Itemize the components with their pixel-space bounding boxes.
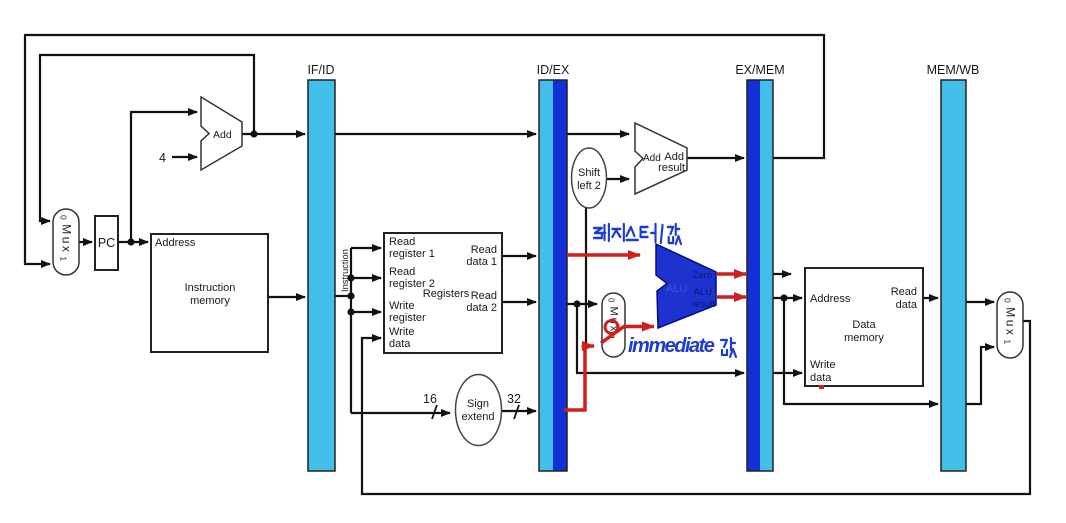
wire write-back: WB mux output around bottom to Write data [362, 321, 1030, 494]
wire Add2 result to EX/MEM [687, 157, 744, 159]
svg-text:left 2: left 2 [577, 180, 601, 192]
data memory [805, 268, 923, 386]
svg-text:ALU: ALU [666, 283, 687, 295]
svg-text:register: register [389, 312, 426, 324]
svg-text:Write: Write [389, 326, 414, 338]
svg-text:data 1: data 1 [466, 256, 497, 268]
registers unit [384, 233, 502, 353]
wire immediate to Sign extend [351, 412, 450, 414]
svg-text:memory: memory [844, 332, 884, 344]
wire mux output to PC [79, 241, 92, 243]
wire Read data 1 to ID/EX [502, 255, 536, 257]
wire to Write register [351, 311, 381, 313]
PC register [95, 216, 118, 270]
svg-text:data: data [810, 372, 832, 384]
wire constant 4 into Add [172, 156, 197, 158]
pipeline register ID/EX [537, 63, 570, 471]
wire PC+4 loop: Add output up over to PC mux input 0 [40, 55, 254, 221]
svg-text:Zero: Zero [692, 270, 712, 281]
wire Instruction memory output to IF/ID [268, 296, 305, 298]
pipeline register IF/ID [307, 63, 335, 471]
svg-text:result: result [658, 162, 685, 174]
svg-text:Registers: Registers [423, 288, 470, 300]
wire Sign extend output to ID/EX [502, 410, 536, 412]
mux M2 (ALUSrc) [602, 293, 625, 357]
red wire register 1 value into ALU [567, 253, 640, 257]
svg-text:32: 32 [507, 392, 521, 406]
red wire mux to ALU lower input [601, 327, 654, 344]
svg-text:extend: extend [461, 411, 494, 423]
red mark under data memory [819, 385, 824, 389]
svg-text:Read: Read [471, 290, 497, 302]
node instruction bus junction 1 [347, 274, 354, 281]
mux M3 (write-back) [997, 292, 1023, 358]
node Add output junction [250, 130, 257, 137]
mux M1 (PC source) [53, 209, 79, 275]
svg-text:Add: Add [213, 129, 232, 141]
svg-text:register 1: register 1 [389, 248, 435, 260]
wire PC value up to Add top input [131, 112, 197, 242]
svg-text:immediate: immediate [628, 335, 715, 357]
wire Zero flag out of EX/MEM [773, 273, 791, 275]
svg-text:Write: Write [810, 359, 835, 371]
svg-text:ALU: ALU [694, 287, 713, 298]
wire PC+4 ID/EX to Add2 [567, 133, 629, 135]
ALU [656, 244, 716, 328]
svg-text:Address: Address [810, 293, 851, 305]
node instruction bus junction 2 [347, 292, 354, 299]
red circle annotation around mux input 1 [605, 321, 618, 334]
svg-text:IF/ID: IF/ID [307, 63, 334, 77]
adder Add2 (branch target) [635, 123, 687, 194]
red wire ALU Zero output to EX/MEM [717, 272, 746, 276]
wire immediate up to Shift left 2 [585, 208, 587, 344]
wire to Read register 2 [351, 277, 381, 279]
wire instruction from IF/ID [335, 295, 351, 297]
sign extend unit [456, 375, 502, 446]
bus slash 32 [514, 405, 519, 419]
wire PC+4 IF/ID to ID/EX [335, 133, 536, 135]
svg-text:Instruction: Instruction [185, 282, 236, 294]
instruction memory [151, 234, 268, 352]
pipeline register EX/MEM [735, 63, 784, 471]
svg-text:Write: Write [389, 300, 414, 312]
node instruction bus junction 3 [347, 308, 354, 315]
wire write data to Data memory [773, 372, 802, 374]
wire PC output to Instruction memory Address [118, 241, 148, 243]
svg-text:ID/EX: ID/EX [537, 63, 570, 77]
wire Shift left 2 output to Add2 [606, 178, 629, 180]
red wire ALU result to EX/MEM [717, 295, 746, 299]
svg-text:Sign: Sign [467, 398, 489, 410]
wire Read data 2 to ID/EX [502, 301, 536, 303]
node ALU result junction [780, 294, 787, 301]
bus slash 16 [432, 405, 437, 419]
svg-text:16: 16 [423, 392, 437, 406]
wire Read data 2 down to EX/MEM [577, 304, 744, 373]
svg-text:data: data [896, 299, 918, 311]
wire to Read register 1 [351, 247, 381, 249]
red node on immediate path [582, 343, 589, 350]
wire instruction vertical bus [350, 248, 352, 413]
svg-text:data 2: data 2 [466, 302, 497, 314]
svg-text:result: result [692, 299, 716, 310]
node PC output junction [127, 238, 134, 245]
svg-text:Shift: Shift [578, 167, 600, 179]
wire ALU result to Data memory Address [773, 297, 802, 299]
annotation register 1 value (Korean handwriting) [594, 224, 681, 244]
svg-text:4: 4 [159, 151, 166, 165]
wire branch-target feedback: EX/MEM right to top to PC mux input 1 [25, 35, 824, 264]
svg-text:Address: Address [155, 237, 196, 249]
svg-text:data: data [389, 338, 411, 350]
wire Add output to IF/ID [242, 133, 305, 135]
svg-text:Read: Read [389, 266, 415, 278]
wire Read data to MEM/WB [923, 297, 938, 299]
annotation immediate value (handwriting) [628, 335, 736, 357]
svg-text:Read: Read [471, 244, 497, 256]
svg-text:PC: PC [98, 236, 115, 250]
red wire immediate path into ALUSrc mux [564, 346, 594, 410]
node read data 2 junction [573, 300, 580, 307]
pipeline register MEM/WB [927, 63, 980, 471]
svg-text:memory: memory [190, 295, 230, 307]
svg-text:EX/MEM: EX/MEM [735, 63, 784, 77]
wire MEM/WB ALU result to WB mux input 1 [966, 347, 994, 404]
svg-text:Read: Read [389, 236, 415, 248]
wire Read data 2 to ALUSrc mux input 0 [567, 303, 597, 305]
adder Add (PC+4) [201, 97, 242, 170]
svg-text:Read: Read [891, 286, 917, 298]
shift left 2 unit [572, 148, 607, 208]
wire MEM/WB read data to WB mux input 0 [966, 301, 994, 303]
svg-text:MEM/WB: MEM/WB [927, 63, 980, 77]
svg-text:Instruction: Instruction [340, 249, 350, 292]
svg-text:Data: Data [852, 319, 876, 331]
wire ALU result bypass to MEM/WB [784, 298, 938, 404]
